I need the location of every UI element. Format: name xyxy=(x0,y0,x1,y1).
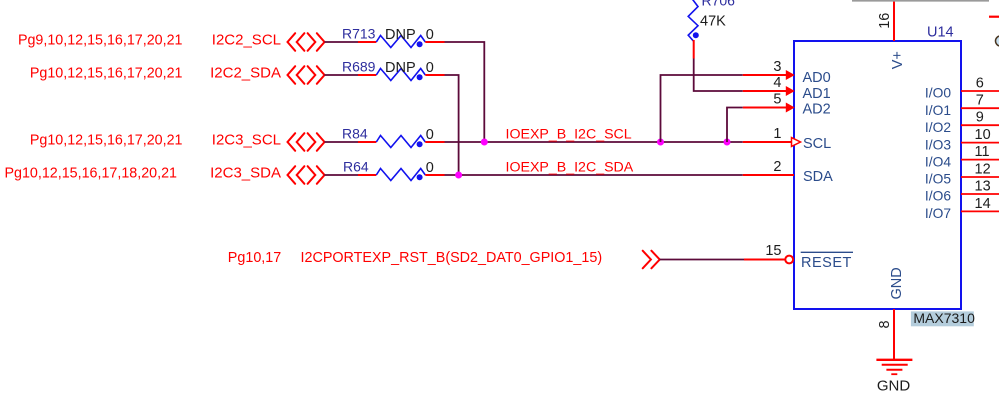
net label IOEXP_B_I2C_SDA xyxy=(506,160,634,176)
pin 15 RESET stub with bubble xyxy=(744,243,793,263)
wire I2C2_SDA to R689 xyxy=(325,74,359,76)
pin 3 AD0 stub xyxy=(743,59,795,80)
svg-text:R64: R64 xyxy=(343,159,369,175)
svg-text:GND: GND xyxy=(877,378,911,395)
svg-text:3: 3 xyxy=(773,59,781,75)
svg-text:I/O2: I/O2 xyxy=(925,120,951,135)
svg-text:IOEXP_B_I2C_SCL: IOEXP_B_I2C_SCL xyxy=(506,127,632,143)
pin 12 I/O5 xyxy=(925,162,999,187)
pin 4 AD1 stub xyxy=(743,75,795,96)
pin 13 I/O6 xyxy=(925,179,999,204)
svg-text:Pg9,10,12,15,16,17,20,21: Pg9,10,12,15,16,17,20,21 xyxy=(18,33,183,49)
pin name RESET with overline xyxy=(801,252,853,270)
node I2C2_SCL net name xyxy=(212,32,281,49)
pin name AD2 xyxy=(803,102,831,118)
net label IOEXP_B_I2C_SCL xyxy=(506,127,632,143)
wire net IOEXP_B_I2C_SDA xyxy=(445,174,743,176)
svg-text:10: 10 xyxy=(975,127,991,143)
svg-text:13: 13 xyxy=(975,179,991,195)
svg-text:9: 9 xyxy=(976,110,984,126)
wire R689 out xyxy=(445,75,459,175)
node I2C3_SCL page refs text xyxy=(30,133,183,149)
IC U14 body xyxy=(794,41,961,309)
wire net IOEXP_B_I2C_SCL xyxy=(445,141,743,143)
svg-text:R706: R706 xyxy=(702,0,736,9)
node I2C3_SCL net name xyxy=(212,132,281,149)
pin 8 GND line xyxy=(877,309,894,360)
resistor R713 xyxy=(342,26,445,48)
wire I2C3_SCL to R84 xyxy=(325,141,359,143)
off-page connector I2CPORTEXP_RST_B xyxy=(643,251,660,269)
svg-text:Pg10,12,15,16,17,20,21: Pg10,12,15,16,17,20,21 xyxy=(30,66,183,82)
wire R713 out xyxy=(445,42,485,142)
svg-text:RESET: RESET xyxy=(801,255,852,271)
pin 5 AD2 stub xyxy=(743,92,795,113)
resistor R689 xyxy=(342,59,445,81)
pin name V+ vertical xyxy=(890,51,906,69)
svg-text:I/O1: I/O1 xyxy=(925,103,951,118)
svg-text:4: 4 xyxy=(773,75,781,91)
off-page connector I2C2_SDA xyxy=(288,66,325,84)
off-page connector I2C3_SCL xyxy=(288,133,325,151)
pin 14 I/O7 xyxy=(925,196,999,221)
pin name AD1 xyxy=(803,86,831,102)
pin 9 I/O2 xyxy=(925,110,999,135)
svg-text:I2CPORTEXP_RST_B(SD2_DAT0_GPIO: I2CPORTEXP_RST_B(SD2_DAT0_GPIO1_15) xyxy=(301,250,603,266)
svg-text:14: 14 xyxy=(975,196,991,212)
svg-text:1: 1 xyxy=(773,126,781,142)
junction R713 to SCL xyxy=(481,139,488,146)
svg-text:6: 6 xyxy=(976,75,984,91)
svg-text:U14: U14 xyxy=(927,25,954,41)
wire RESET xyxy=(660,259,744,261)
resistor R84 xyxy=(342,126,445,148)
fragment circle right edge xyxy=(996,36,999,46)
svg-text:Pg10,12,15,16,17,18,20,21: Pg10,12,15,16,17,18,20,21 xyxy=(4,166,177,182)
pin name SCL xyxy=(803,136,831,152)
pin 6 I/O0 xyxy=(925,75,999,100)
part value MAX7310 highlighted xyxy=(911,310,975,326)
off-page connector I2C3_SDA xyxy=(288,166,325,184)
svg-text:V+: V+ xyxy=(890,51,906,69)
pin 2 SDA stub xyxy=(743,159,794,175)
svg-text:SCL: SCL xyxy=(803,136,831,152)
svg-text:AD2: AD2 xyxy=(803,102,831,118)
IC U14 refdes xyxy=(927,25,954,41)
svg-text:0: 0 xyxy=(426,160,434,176)
svg-text:12: 12 xyxy=(975,162,991,178)
svg-text:DNP: DNP xyxy=(385,27,416,43)
svg-text:I2C2_SCL: I2C2_SCL xyxy=(212,32,281,49)
svg-text:R689: R689 xyxy=(342,59,376,75)
svg-text:7: 7 xyxy=(976,93,984,109)
wire I2C2_SCL to R713 xyxy=(325,41,359,43)
pin 1 SCL stub xyxy=(743,126,801,146)
wire R706 to AD1 xyxy=(694,59,743,92)
wire AD2 riser xyxy=(727,108,743,143)
svg-text:GND: GND xyxy=(889,267,905,299)
pin 11 I/O4 xyxy=(925,144,999,169)
svg-text:16: 16 xyxy=(877,13,893,29)
node I2C3_SDA net name xyxy=(210,165,281,182)
resistor R64 xyxy=(343,159,445,181)
node I2CPORTEXP_RST_B label xyxy=(228,250,602,266)
svg-text:R713: R713 xyxy=(342,26,376,42)
svg-text:I2C2_SDA: I2C2_SDA xyxy=(210,65,281,82)
svg-text:47K: 47K xyxy=(700,13,726,29)
svg-text:0: 0 xyxy=(426,127,434,143)
svg-text:DNP: DNP xyxy=(385,60,416,76)
svg-text:I2C3_SDA: I2C3_SDA xyxy=(210,165,281,182)
svg-text:I/O6: I/O6 xyxy=(925,189,951,204)
svg-text:R84: R84 xyxy=(342,126,368,142)
svg-text:Pg10,17: Pg10,17 xyxy=(228,250,281,266)
svg-text:5: 5 xyxy=(773,92,781,108)
pin 10 I/O3 xyxy=(925,127,999,152)
node I2C3_SDA page refs text xyxy=(4,166,177,182)
svg-text:IOEXP_B_I2C_SDA: IOEXP_B_I2C_SDA xyxy=(506,160,634,176)
svg-text:I/O5: I/O5 xyxy=(925,172,951,187)
svg-text:0: 0 xyxy=(426,60,434,76)
svg-text:0: 0 xyxy=(426,27,434,43)
gray top edge line xyxy=(852,0,989,2)
ground label GND xyxy=(877,378,911,395)
svg-text:Pg10,12,15,16,17,20,21: Pg10,12,15,16,17,20,21 xyxy=(30,133,183,149)
pin 7 I/O1 xyxy=(925,93,999,118)
off-page connector I2C2_SCL xyxy=(288,33,325,51)
svg-text:15: 15 xyxy=(765,243,781,259)
svg-text:I2C3_SCL: I2C3_SCL xyxy=(212,132,281,149)
pin name AD0 xyxy=(803,70,831,86)
svg-text:AD1: AD1 xyxy=(803,86,831,102)
junction AD2 riser on SCL xyxy=(724,139,731,146)
junction R689 to SDA xyxy=(455,172,462,179)
node I2C2_SDA page refs text xyxy=(30,66,183,82)
svg-text:11: 11 xyxy=(975,144,990,160)
resistor R706 xyxy=(688,0,735,59)
junction AD0 riser on SCL xyxy=(657,139,664,146)
red fragment top right xyxy=(989,16,999,18)
svg-text:AD0: AD0 xyxy=(803,70,831,86)
ground symbol xyxy=(876,360,912,374)
svg-text:8: 8 xyxy=(877,320,893,328)
pin 16 V+ line xyxy=(877,1,894,41)
svg-text:I/O7: I/O7 xyxy=(925,206,951,221)
wire I2C3_SDA to R64 xyxy=(325,174,359,176)
pin name SDA xyxy=(803,169,833,185)
svg-text:I/O3: I/O3 xyxy=(925,137,951,152)
svg-text:SDA: SDA xyxy=(803,169,833,185)
svg-text:MAX7310: MAX7310 xyxy=(913,310,975,326)
svg-text:I/O4: I/O4 xyxy=(925,154,951,169)
node I2C2_SDA net name xyxy=(210,65,281,82)
svg-text:I/O0: I/O0 xyxy=(925,86,951,101)
pin name GND vertical xyxy=(889,267,905,299)
svg-text:2: 2 xyxy=(773,159,781,175)
node I2C2_SCL page refs text xyxy=(18,33,183,49)
wire AD0 riser xyxy=(661,75,743,142)
